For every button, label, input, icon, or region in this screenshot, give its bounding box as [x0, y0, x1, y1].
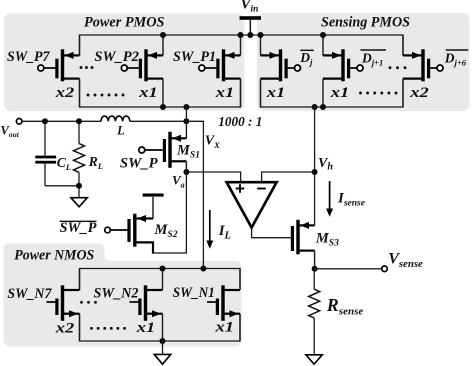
resistor RL — [78, 121, 80, 143]
Power PMOS shaded box — [4, 14, 245, 112]
svg-text:1000 : 1: 1000 : 1 — [218, 115, 262, 130]
wire Vin top rail — [80, 35, 404, 55]
svg-text:L: L — [116, 124, 125, 138]
Sensing PMOS shaded box — [257, 13, 470, 111]
terminal Vout — [16, 119, 22, 125]
svg-text:Power PMOS: Power PMOS — [84, 15, 165, 31]
ellipsis between Dj+1 and Dj+6 — [389, 66, 407, 69]
transistor sensing Dj+1 — [323, 35, 363, 107]
svg-text:Power NMOS: Power NMOS — [14, 248, 94, 264]
svg-text:SW_P: SW_P — [60, 220, 98, 236]
svg-text:x2: x2 — [409, 85, 429, 101]
op-amp U1 — [227, 182, 277, 227]
wire Vin stem — [249, 20, 251, 35]
annotation IL arrow — [209, 210, 211, 242]
wire VX drop from PMOS rail — [185, 107, 187, 121]
wire VX to IL drop — [186, 121, 203, 268]
wire sensing PMOS drain rail — [261, 79, 404, 107]
supply bar MS2 — [143, 194, 164, 197]
svg-text:x1: x1 — [266, 85, 286, 101]
transistor MS3 — [291, 220, 315, 269]
inductor L — [101, 116, 130, 121]
svg-text:SW_N1: SW_N1 — [173, 285, 215, 301]
transistor sensing Dj+6 — [403, 35, 443, 107]
terminal Vsense — [382, 266, 388, 272]
junction dots top rail — [160, 32, 326, 38]
annotation Isense arrow — [329, 181, 331, 210]
transistor sensing Dj — [261, 35, 301, 107]
wire opamp minus to Vh — [262, 172, 315, 182]
wire NMOS source rail — [80, 314, 241, 341]
svg-text:x1: x1 — [136, 320, 156, 336]
svg-text:x1: x1 — [215, 85, 235, 101]
terminal SW_P bar — [105, 227, 111, 233]
wire Vout row — [22, 120, 101, 122]
svg-text:SW_P: SW_P — [120, 155, 159, 171]
Power NMOS shaded box — [4, 244, 242, 347]
wire inductor to VX — [130, 120, 187, 122]
transistor SW_N2 — [130, 269, 163, 342]
ellipsis between SW_P7 and SW_P2 — [80, 66, 94, 69]
transistor SW_P1 — [199, 35, 241, 107]
wire Va down to MS2 drain — [152, 172, 186, 253]
ground under NMOS — [162, 341, 164, 354]
wire power PMOS drain rail — [80, 79, 241, 107]
junction dots Vout row — [42, 118, 189, 189]
svg-text:SW_N2: SW_N2 — [94, 285, 139, 301]
transistor SW_P2 — [121, 35, 163, 107]
node Va dot — [183, 169, 189, 175]
svg-text:x1: x1 — [330, 85, 350, 101]
node Vh dot — [312, 169, 318, 175]
node Vsense dot — [312, 266, 318, 272]
ground under CL RL — [78, 186, 80, 198]
wire NMOS drain rail — [80, 269, 241, 291]
transistor SW_N7 — [47, 269, 80, 342]
ellipsis between sensing x1 and x2 — [359, 92, 397, 95]
junction dots drain rails — [160, 104, 326, 110]
junction dots NMOS rails — [160, 266, 207, 345]
supply bar Vin — [240, 16, 261, 20]
resistor Rsense — [313, 269, 315, 289]
wire Va to opamp plus — [186, 172, 240, 182]
svg-text:SW_P2: SW_P2 — [94, 49, 139, 65]
capacitor CL — [44, 121, 46, 156]
transistor SW_N1 — [207, 269, 240, 342]
svg-text:SW_P7: SW_P7 — [7, 49, 50, 65]
svg-text:x2: x2 — [55, 320, 75, 336]
wire opamp output to MS3 gate — [252, 229, 291, 238]
ground under Rsense — [306, 355, 322, 364]
transistor MS2 — [110, 197, 153, 247]
wire Vh vertical — [314, 107, 316, 225]
ellipsis between SW_N7 and SW_N2 — [80, 301, 97, 304]
ellipsis between NMOS x2 and x1 — [90, 327, 126, 330]
svg-text:x2: x2 — [55, 85, 75, 101]
ellipsis between x2 and x1 — [87, 94, 125, 97]
svg-text:x1: x1 — [138, 85, 158, 101]
svg-text:Sensing PMOS: Sensing PMOS — [321, 15, 410, 31]
svg-text:x1: x1 — [214, 319, 234, 335]
svg-text:SW_P1: SW_P1 — [173, 49, 216, 65]
transistor MS1 — [139, 121, 187, 172]
wire to Vsense terminal — [315, 268, 382, 270]
svg-text:SW_N7: SW_N7 — [7, 286, 51, 302]
transistor SW_P7 — [38, 35, 80, 107]
